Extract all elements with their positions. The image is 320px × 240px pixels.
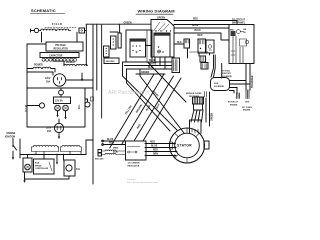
wire receptacle right <box>66 79 93 81</box>
stator outer circle <box>170 128 205 163</box>
field terminal square <box>79 28 85 33</box>
small connector 2 <box>111 36 117 49</box>
bottom receptacle circle <box>54 123 63 132</box>
svg-text:YELLOW: YELLOW <box>124 104 133 115</box>
title WIRING DIAGRAM <box>136 9 175 15</box>
field plug circle <box>34 28 38 32</box>
svg-text:BLUE: BLUE <box>151 146 158 148</box>
svg-text:BLUE: BLUE <box>107 139 114 141</box>
rotor caption right <box>228 102 252 112</box>
svg-text:RED: RED <box>150 142 155 144</box>
wire third to panel <box>174 33 229 40</box>
svg-text:REGULATOR: REGULATOR <box>128 164 140 167</box>
module connector pins <box>193 92 207 111</box>
svg-text:ROTOR OF: ROTOR OF <box>228 102 239 104</box>
voltage regulator U1 <box>46 42 83 51</box>
receptacle R1 circle <box>53 74 65 86</box>
wires down from breakers <box>188 48 210 58</box>
wire power1 ends <box>27 69 55 73</box>
svg-text:NO. CONN.: NO. CONN. <box>242 107 252 109</box>
small connector 1 <box>104 46 110 57</box>
svg-text:REGULATOR: REGULATOR <box>54 48 69 51</box>
wires into stator top <box>191 110 203 122</box>
svg-text:IDLE: IDLE <box>35 163 40 165</box>
stator winding circles row <box>42 58 77 61</box>
engine ignition label <box>5 133 16 139</box>
left stator leads <box>103 141 125 145</box>
top small breaker circle <box>59 90 64 95</box>
svg-text:15A: 15A <box>243 28 247 31</box>
lower connector pair <box>200 56 208 69</box>
panel caption <box>232 20 246 25</box>
stator inner circle <box>175 133 200 158</box>
svg-text:GREEN: GREEN <box>141 72 150 74</box>
receptacle feed wire <box>27 72 53 75</box>
svg-text:Copyright: Copyright <box>127 178 136 181</box>
D.C. circle <box>85 102 90 107</box>
svg-text:ENGINE: ENGINE <box>243 110 251 112</box>
rail connector nub <box>91 97 94 101</box>
svg-text:ARI PartStream™: ARI PartStream™ <box>108 90 150 96</box>
stator right notch <box>204 141 209 149</box>
idle solenoid blob <box>211 78 251 91</box>
svg-text:12V 5A: 12V 5A <box>55 100 63 103</box>
box with X lamp <box>23 158 32 172</box>
bus labels <box>141 60 157 74</box>
wire fourth to panel <box>174 24 229 26</box>
svg-text:RED: RED <box>193 19 198 21</box>
choke box <box>64 160 75 176</box>
svg-text:12V CHARGE: 12V CHARGE <box>128 162 141 165</box>
12V cluster box <box>54 97 71 104</box>
field lead left <box>31 29 35 32</box>
idle controller box <box>34 159 55 174</box>
breaker row <box>184 39 214 53</box>
svg-text:SPEED: SPEED <box>35 165 42 167</box>
receptacle slots <box>58 78 62 84</box>
svg-text:D.C.: D.C. <box>79 104 81 109</box>
band bus wire <box>20 154 86 156</box>
svg-text:POWER: POWER <box>34 65 43 67</box>
OCR circle <box>39 103 44 108</box>
svg-text:GROUND: GROUND <box>106 61 115 63</box>
svg-text:CH: CH <box>76 168 80 171</box>
svg-text:CAPACITOR: CAPACITOR <box>49 55 63 58</box>
arrow into idle area <box>56 155 58 163</box>
svg-text:BLUE: BLUE <box>195 30 202 32</box>
schematic right rail <box>93 24 97 184</box>
fuel solenoid caption <box>222 71 233 78</box>
transfer wires right <box>246 64 250 91</box>
switch stubs to bus <box>155 57 165 69</box>
solenoid feed wires <box>211 55 222 78</box>
bottom wire <box>25 172 70 181</box>
svg-text:ENGINE: ENGINE <box>230 104 238 106</box>
band right rail <box>86 140 93 155</box>
module choke rectifier caption <box>186 93 202 98</box>
svg-text:BROWN: BROWN <box>135 104 143 114</box>
svg-text:120V: 120V <box>46 128 52 130</box>
narrow connector rect <box>118 33 121 48</box>
stem above <box>58 119 60 123</box>
stator left lead tab <box>170 142 173 149</box>
capacitor block <box>40 53 79 58</box>
wire field right to rail <box>85 24 87 66</box>
svg-text:TO FUEL: TO FUEL <box>222 71 231 73</box>
svg-text:RED: RED <box>153 150 158 152</box>
copyright lines <box>127 178 159 184</box>
green vertical wire <box>206 92 210 126</box>
lower section outer box <box>27 88 93 127</box>
wires at top of connectors <box>110 31 118 33</box>
svg-text:20A: 20A <box>47 130 52 133</box>
svg-text:BLUE: BLUE <box>192 25 199 27</box>
ignition ground arrow <box>12 151 14 158</box>
lamp circles with X <box>55 105 61 111</box>
ground label box <box>104 58 119 64</box>
engine connector bars <box>230 88 250 99</box>
svg-text:(RED): (RED) <box>113 147 118 149</box>
relay box L <box>126 30 152 62</box>
svg-text:Not to be reproduced without p: Not to be reproduced without perm. <box>127 181 159 184</box>
wire field to regulator <box>42 32 78 42</box>
charge coil leads <box>98 150 102 153</box>
SE diagonal wires <box>123 62 178 130</box>
svg-text:(BLK): (BLK) <box>113 151 118 153</box>
stator ring ticks <box>175 128 200 163</box>
svg-text:30A: 30A <box>46 81 51 84</box>
ignition wire + switch <box>13 139 17 151</box>
120V 20A label <box>46 128 52 134</box>
arrows down from lamps <box>58 111 66 118</box>
svg-text:RED: RED <box>109 143 114 145</box>
divider line <box>101 25 103 118</box>
SW diagonal harness <box>110 74 154 148</box>
wire to idle box <box>19 139 21 158</box>
ground arrow near rail <box>81 73 83 80</box>
svg-text:SHUTOFF: SHUTOFF <box>222 73 232 75</box>
svg-text:BLK: BLK <box>177 42 182 44</box>
svg-text:STATOR: STATOR <box>177 144 192 148</box>
svg-text:VOLTAGE: VOLTAGE <box>55 44 66 47</box>
arrow below bottom receptacle <box>58 133 60 138</box>
svg-text:BRN: BRN <box>153 154 158 156</box>
svg-text:ENGINE: ENGINE <box>7 133 16 135</box>
svg-text:120V: 120V <box>45 78 51 80</box>
svg-text:SCHEMATIC: SCHEMATIC <box>31 8 56 13</box>
svg-text:POWER: POWER <box>66 62 75 64</box>
receptacle label 120V 30A <box>45 78 51 84</box>
svg-text:TO CIRCUIT: TO CIRCUIT <box>232 20 246 22</box>
svg-text:TRANSFER: TRANSFER <box>251 75 254 88</box>
svg-text:GND: GND <box>245 102 250 104</box>
svg-text:IGNITION: IGNITION <box>5 137 16 139</box>
svg-text:IDLE: IDLE <box>214 83 219 85</box>
start switch box <box>147 20 174 63</box>
wire BLK to breakers <box>174 43 184 45</box>
svg-text:CB: CB <box>243 32 246 34</box>
wire BLUE to panel <box>174 27 229 29</box>
svg-text:F I E L D: F I E L D <box>52 23 62 26</box>
power winding 2 coil <box>64 64 87 65</box>
band stubs <box>36 152 81 155</box>
wire RED to panel <box>174 21 237 25</box>
wire cap to power2 <box>53 58 64 66</box>
svg-text:RED: RED <box>198 35 203 37</box>
panel box <box>229 25 254 64</box>
field coil <box>39 29 71 31</box>
bus connector box <box>172 58 180 73</box>
harness labels rotated <box>124 90 161 129</box>
field dashed line <box>45 26 76 28</box>
stator lead wires <box>145 144 177 156</box>
svg-text:SOLENOID: SOLENOID <box>214 86 225 88</box>
title SCHEMATIC <box>31 8 65 14</box>
svg-text:GREEN: GREEN <box>212 112 214 121</box>
svg-text:ENG GND: ENG GND <box>95 159 104 161</box>
left rail <box>26 44 28 127</box>
svg-text:WIRING DIAGRAM: WIRING DIAGRAM <box>138 9 176 14</box>
svg-text:CONTROLLER: CONTROLLER <box>35 168 49 170</box>
fan bus horizontals <box>123 62 173 74</box>
power winding 1 coil <box>33 67 51 68</box>
charge regulator box <box>126 141 147 167</box>
svg-text:MODULE CHOKE: MODULE CHOKE <box>186 93 202 95</box>
bottom winding band <box>32 145 82 151</box>
stator top tab <box>190 120 202 134</box>
